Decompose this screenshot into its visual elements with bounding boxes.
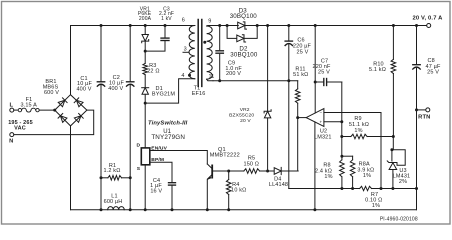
wire RTN node down to ground rail (416, 110, 418, 210)
inductor L1 600 uH (100, 193, 132, 211)
node C1 rail junction (100, 24, 103, 27)
capacitor C6 220 uF 25 V (285, 24, 311, 82)
transformer T1 primary winding (pins 6,3,4) (181, 17, 194, 79)
wire bridge top vertex to + rail (70, 26, 72, 95)
svg-text:VR2: VR2 (240, 107, 250, 113)
wire C6 node down to sense line (288, 81, 290, 189)
wire secondary + rail (pin 9 to D3) (213, 25, 238, 27)
node R8 top junction (340, 155, 352, 158)
node C9 top junction (218, 24, 221, 27)
svg-text:MMBT2222: MMBT2222 (210, 152, 240, 158)
svg-text:1%: 1% (372, 203, 380, 209)
svg-text:LM321: LM321 (314, 135, 332, 141)
capacitor C9 1.0 nF 200 V (216, 26, 242, 83)
zener VR1 P6KE 200A (138, 6, 152, 51)
wire N to bridge right vertex (14, 110, 94, 135)
svg-text:400 V: 400 V (108, 86, 123, 92)
wire inverting input line (324, 113, 381, 189)
ic U1 TNY279GN TinySwitch-III (137, 120, 188, 171)
svg-text:9: 9 (208, 19, 211, 25)
resistor R1 1.2 kOhm (100, 163, 132, 180)
transformer T1 secondary winding (pins 9,11) (203, 19, 214, 81)
svg-text:TNY279GN: TNY279GN (151, 134, 185, 141)
node N (AC neutral terminal) (9, 133, 14, 145)
svg-text:1.2 kΩ: 1.2 kΩ (104, 168, 121, 174)
resistor R10 5.1 kOhm (369, 24, 396, 137)
svg-text:S: S (137, 166, 141, 172)
capacitor C2 10 uF 400 V (108, 26, 134, 210)
diode D4 LL4148 (269, 167, 298, 187)
resistor R11 51 kOhm (293, 66, 308, 117)
svg-text:3.15 A: 3.15 A (20, 102, 37, 108)
wire R10 node to U3 cathode (392, 137, 394, 150)
wire U1 S pin to ground rail (144, 165, 147, 211)
bridge rectifier BR1 MB6S 600 V (43, 79, 87, 126)
wire op-amp ground pin (313, 122, 316, 211)
wire primary/secondary ground rail (71, 209, 417, 211)
capacitor C1 10 uF 400 V (76, 26, 104, 210)
transistor Q1 MMBT2222 (206, 147, 240, 211)
svg-text:20 V, 0.7 A: 20 V, 0.7 A (413, 15, 444, 21)
svg-text:D: D (137, 143, 141, 149)
svg-text:30BQ100: 30BQ100 (230, 13, 258, 20)
svg-text:L: L (9, 103, 13, 109)
svg-text:600 µH: 600 µH (104, 199, 123, 205)
wire op-amp output to D4 line (297, 118, 299, 171)
node 20 V output terminal (413, 15, 444, 27)
diode D2 30BQ100 (parallel) (227, 24, 259, 59)
svg-text:51 kΩ: 51 kΩ (293, 72, 308, 78)
svg-text:TinySwitch-III: TinySwitch-III (148, 120, 188, 126)
node C7 tap junction (314, 81, 317, 84)
node U3 anode junction (391, 187, 394, 190)
resistor R4 10 kOhm (226, 171, 246, 211)
svg-text:−: − (319, 110, 322, 115)
wire U1 BP/M pin to C4 (150, 162, 172, 182)
svg-text:16 V: 16 V (150, 189, 162, 195)
transformer T1 core (198, 20, 202, 87)
wire U1 EN/UV pin to Q1 collector (150, 151, 208, 165)
svg-text:25 V: 25 V (318, 69, 330, 75)
node D2 branch left junction (226, 24, 229, 27)
node RTN sense junction (415, 187, 418, 190)
svg-text:U2: U2 (320, 128, 327, 134)
diode D3 30BQ100 (230, 7, 258, 29)
wire op-amp V+ to rail (314, 24, 317, 113)
node C2 rail junction (129, 24, 132, 27)
svg-text:4: 4 (181, 73, 184, 79)
node VR1/C3 junction (144, 50, 147, 53)
svg-text:LL4148: LL4148 (269, 182, 288, 188)
svg-text:RTN: RTN (418, 114, 430, 120)
wire transformer pin 4 to drain node (145, 79, 195, 103)
wire fuse to bridge (39, 109, 55, 111)
svg-text:30BQ100: 30BQ100 (230, 52, 258, 59)
svg-text:BYG21M: BYG21M (152, 91, 175, 97)
svg-text:VAC: VAC (14, 126, 26, 132)
svg-text:2%: 2% (399, 179, 407, 185)
wire noninverting node down (341, 122, 343, 156)
svg-text:BZX55C20: BZX55C20 (229, 113, 254, 119)
svg-text:200A: 200A (139, 16, 152, 22)
svg-text:5.1 kΩ: 5.1 kΩ (369, 67, 386, 73)
node C3 rail junction (164, 24, 167, 27)
shunt reference U3 LM431 2% (387, 148, 410, 188)
fuse F1 3.15 A (18, 97, 39, 112)
label 195 - 265 VAC (8, 120, 33, 132)
svg-text:1%: 1% (324, 174, 332, 180)
node L (AC line input terminal) (9, 103, 13, 112)
node op-amp output junction (296, 116, 299, 119)
wire sense line right (372, 188, 417, 190)
capacitor C3 2.2 nF 1 kV (145, 6, 174, 51)
wire C7 to noninverting input node (341, 82, 343, 122)
node drain junction (144, 102, 147, 105)
wire secondary + rail (D3 to output) (245, 25, 427, 27)
svg-text:1%: 1% (363, 173, 371, 179)
wire primary + rail (71, 25, 195, 27)
node R5/D4/VR2 junction (266, 170, 269, 173)
resistor R9 51.1 kOhm 1% (340, 116, 395, 139)
op-amp U2 LM321 (298, 109, 332, 141)
wire Q1 base line (212, 170, 244, 172)
svg-text:6: 6 (182, 17, 185, 23)
svg-text:20 V: 20 V (240, 118, 251, 124)
svg-text:N: N (9, 139, 13, 145)
wire noninverting input line (324, 120, 343, 123)
diode D1 BYG21M (142, 75, 176, 103)
wire L terminal to fuse (14, 109, 18, 111)
svg-text:10 kΩ: 10 kΩ (231, 187, 246, 193)
svg-text:PI-4960-020108: PI-4960-020108 (380, 216, 418, 222)
svg-text:25 V: 25 V (297, 49, 309, 55)
svg-text:11: 11 (208, 74, 214, 80)
zener VR2 BZX55C20 20 V (229, 24, 271, 171)
capacitor C7 220 nF 25 V (312, 59, 341, 86)
svg-text:1 kV: 1 kV (161, 16, 172, 22)
svg-text:200 V: 200 V (226, 71, 241, 77)
svg-text:+: + (319, 120, 322, 125)
capacitor C4 1 uF 16 V (150, 178, 175, 211)
resistor R7 0.10 Ohm 1% (360, 186, 383, 209)
svg-text:22 Ω: 22 Ω (147, 69, 159, 75)
svg-text:1%: 1% (354, 128, 362, 134)
svg-text:400 V: 400 V (76, 87, 91, 93)
svg-text:150 Ω: 150 Ω (244, 161, 260, 167)
resistor R3 22 Ohm (143, 51, 160, 75)
resistor R8 2.4 kOhm 1% (315, 156, 344, 190)
node VR1 rail junction (144, 24, 147, 27)
node RTN junction (415, 108, 418, 111)
node R4 junction (227, 170, 230, 173)
wire sense line left (C6 node to R7) (289, 188, 360, 190)
node inverting sense junction (380, 187, 383, 190)
wire bridge bottom vertex to ground rail (70, 126, 72, 210)
svg-text:EF16: EF16 (192, 91, 206, 97)
capacitor C8 47 uF 25 V (413, 24, 441, 110)
svg-text:600 V: 600 V (44, 90, 59, 96)
svg-text:3: 3 (184, 46, 187, 52)
resistor R5 150 Ohm (244, 156, 274, 174)
svg-text:25 V: 25 V (427, 69, 439, 75)
label PI-4960-020108 (380, 216, 418, 222)
wire drain node to U1 D pin (144, 103, 146, 148)
wire secondary return (pin 11 line) (213, 80, 298, 82)
node RTN (return terminal) (417, 108, 431, 121)
label T1 EF16 (192, 86, 206, 98)
resistor R8A 3.9 kOhm 1% (350, 156, 374, 190)
